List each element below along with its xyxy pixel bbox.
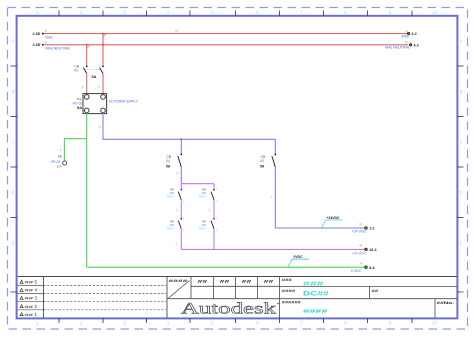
- PB left mid segment (orchid): [180, 200, 182, 219]
- svg-text:M: M: [175, 29, 178, 33]
- svg-text:MAs: MAs: [46, 35, 53, 39]
- wire number tags mid (yellow): [176, 208, 210, 212]
- contact -K4 left terminal numbers (cyan): [183, 216, 185, 232]
- svg-text:Autodesk: Autodesk: [181, 300, 276, 317]
- revision row 1 label: [20, 312, 38, 317]
- svg-text:##: ##: [242, 279, 253, 284]
- header kanji: approval: [264, 279, 275, 284]
- contact -K4 right terminal numbers (cyan): [216, 216, 218, 232]
- svg-text:7: 7: [300, 321, 303, 326]
- svg-text:##: ##: [264, 279, 275, 284]
- svg-text:4-2: 4-2: [412, 32, 417, 36]
- svg-text:5: 5: [211, 321, 214, 326]
- PB network top rail (orchid): [181, 183, 214, 185]
- junction node at branch x181: [180, 138, 182, 140]
- svg-text:M: M: [360, 262, 363, 266]
- breaker CB-04 labels: [165, 155, 172, 168]
- wire branch down x181 upper (slate purple): [180, 139, 182, 154]
- svg-text:1: 1: [183, 187, 185, 191]
- wire number tag below CB-04 (green): [176, 172, 178, 176]
- destination arrow D-4-2 rail L2: [385, 40, 419, 49]
- svg-text:E: E: [12, 241, 15, 246]
- 0VDC callout leader (cyan): [288, 259, 309, 267]
- left zone letters: [11, 39, 14, 297]
- breaker CB-05 drop (slate purple): [274, 139, 276, 154]
- top zone tick marks: [59, 11, 412, 17]
- +24VDC callout leader (cyan): [322, 220, 343, 228]
- svg-text:MAs: MAs: [402, 35, 409, 39]
- power supply PS-PE-02 box: [83, 94, 107, 114]
- date divider cell label (kanji): [370, 287, 379, 299]
- svg-text:2: 2: [98, 85, 100, 89]
- wire PS minus to 0VDC bus (green vertical): [86, 113, 88, 268]
- svg-text:MAs NEUTRAL: MAs NEUTRAL: [385, 45, 410, 49]
- svg-text:A: A: [460, 39, 463, 44]
- svg-text:1: 1: [82, 85, 84, 89]
- svg-text:##: ##: [198, 279, 209, 284]
- circuit breaker CB-03 pole 1: [83, 66, 87, 74]
- right zone letters: [459, 39, 462, 297]
- PE branch wire (green): [64, 139, 86, 161]
- svg-text:29-5: 29-5: [199, 195, 205, 199]
- scale cell diagonal: [169, 281, 190, 299]
- svg-text:(G): (G): [57, 164, 62, 168]
- svg-text:4: 4: [167, 10, 170, 15]
- svg-text:1: 1: [216, 216, 218, 220]
- svg-text:M: M: [45, 29, 48, 33]
- svg-text:2: 2: [80, 10, 83, 15]
- breaker CB-05 contact: [272, 154, 276, 168]
- svg-text:##: ##: [25, 288, 35, 293]
- scale cell label (kana): [169, 279, 190, 283]
- left zone tick marks: [11, 66, 18, 292]
- svg-text:8: 8: [344, 10, 347, 15]
- svg-text:M: M: [405, 29, 408, 33]
- top zone numbers: [36, 10, 437, 15]
- contact -K4 right: [211, 218, 215, 229]
- source arrow 2-6D rail L1: [33, 29, 48, 36]
- PE terminal labels: [50, 148, 62, 168]
- svg-text:MAs NEUTRAL: MAs NEUTRAL: [46, 46, 71, 50]
- label drawing title (kanji): [282, 289, 296, 293]
- wire number tag rail L1 (yellow): [175, 29, 178, 33]
- svg-text:##: ##: [25, 280, 35, 285]
- svg-text:M: M: [405, 40, 408, 44]
- svg-text:B: B: [12, 89, 15, 94]
- contact -K3 left: [178, 189, 182, 200]
- wire CB-05 down and +24VDC feeder (slate purple): [275, 167, 364, 228]
- svg-text:2: 2: [216, 228, 218, 232]
- wire number tag below CB-05 (green): [271, 196, 273, 200]
- svg-text:2: 2: [35, 304, 38, 309]
- wire drop from L2 (red): [86, 44, 104, 66]
- svg-text:29-5: 29-5: [167, 195, 173, 199]
- svg-text:PE: PE: [58, 155, 62, 159]
- svg-text:-04: -04: [165, 159, 170, 163]
- svg-text:-05: -05: [259, 159, 264, 163]
- bottom zone tick marks: [59, 318, 412, 323]
- wire drop from L1 (red): [102, 33, 106, 66]
- svg-text:10: 10: [432, 10, 437, 15]
- svg-text:F: F: [12, 291, 15, 296]
- wire breaker to PS terminal 2 (red): [102, 73, 104, 94]
- revision row 3 label: [20, 296, 38, 301]
- svg-text:3: 3: [35, 296, 38, 301]
- svg-text:2-6D: 2-6D: [33, 32, 41, 36]
- Autodesk logotype: [181, 300, 279, 317]
- svg-text:##: ##: [372, 289, 379, 293]
- PB right mid segment (orchid): [213, 200, 215, 219]
- wire number tags above PS (green): [82, 85, 101, 89]
- contact -K3 right: [211, 189, 215, 200]
- svg-text:16-4: 16-4: [369, 248, 376, 252]
- svg-text:D: D: [459, 190, 462, 195]
- svg-text:5: 5: [35, 280, 38, 285]
- svg-text:4-2: 4-2: [414, 43, 419, 47]
- contact -K4 right labels: [199, 219, 206, 230]
- revision table dashed row lines: [18, 286, 167, 310]
- svg-text:DC##: DC##: [303, 291, 330, 297]
- svg-text:+24 VDC: +24 VDC: [352, 230, 367, 234]
- svg-text:B: B: [460, 89, 463, 94]
- svg-text:2: 2: [176, 242, 178, 246]
- PE earth terminal circle: [63, 161, 67, 165]
- svg-text:+24 VDC: +24 VDC: [352, 251, 367, 255]
- bottom zone numbers: [36, 321, 437, 326]
- svg-text:4: 4: [167, 321, 170, 326]
- svg-text:2: 2: [176, 172, 178, 176]
- title block column lines: [191, 277, 280, 319]
- svg-text:2: 2: [183, 228, 185, 232]
- label deliver-to (kanji): [282, 278, 292, 282]
- revision table frame: [18, 277, 168, 319]
- svg-text:5: 5: [211, 10, 214, 15]
- svg-text:A: A: [12, 39, 15, 44]
- svg-text:9: 9: [389, 321, 392, 326]
- wire number G tag (green): [98, 125, 101, 129]
- svg-text:1: 1: [35, 312, 38, 317]
- svg-text:0VDC: 0VDC: [294, 255, 304, 259]
- revision row 4 label: [20, 288, 38, 293]
- svg-text:C: C: [459, 140, 462, 145]
- svg-text:8-4: 8-4: [369, 266, 374, 270]
- svg-text:2: 2: [80, 321, 83, 326]
- customer name (cyan kanji): [303, 282, 325, 288]
- svg-text:+24VDC: +24VDC: [327, 216, 340, 220]
- svg-text:F: F: [460, 291, 463, 296]
- svg-text:E: E: [460, 241, 463, 246]
- order number (cyan kanji): [303, 309, 329, 315]
- +24VDC callout text: [327, 216, 340, 220]
- svg-text:####: ####: [303, 309, 329, 315]
- PB left lower segment (orchid): [180, 229, 182, 249]
- breaker CB-03 labels: [73, 65, 97, 79]
- svg-text:3: 3: [123, 321, 126, 326]
- svg-text:M: M: [360, 222, 363, 226]
- svg-text:5A: 5A: [92, 75, 97, 79]
- svg-text:####: ####: [282, 289, 296, 293]
- source arrow 2-6D rail L2: [33, 40, 48, 47]
- svg-text:##: ##: [220, 279, 231, 284]
- net label MAs NEUTRAL left: [46, 46, 71, 50]
- PB right lower segment (orchid): [213, 229, 215, 249]
- 0VDC bus (green): [87, 266, 365, 268]
- svg-text:NA: NA: [77, 106, 82, 110]
- wire number tag bottom left (green): [176, 242, 178, 246]
- page no cell: [435, 299, 454, 318]
- right zone tick marks: [457, 66, 464, 292]
- PS labels left: [72, 98, 82, 110]
- svg-text:29-5: 29-5: [199, 227, 205, 231]
- svg-text:1: 1: [36, 321, 39, 326]
- svg-text:8: 8: [344, 321, 347, 326]
- svg-text:4: 4: [35, 288, 38, 293]
- wire L2 neutral rail (red): [45, 44, 408, 46]
- contact -K4 left: [178, 218, 182, 229]
- svg-text:7: 7: [271, 196, 273, 200]
- wire CB-04 to PB network (slate purple): [180, 167, 182, 184]
- svg-text:1: 1: [60, 148, 62, 152]
- svg-text:2: 2: [216, 199, 218, 203]
- destination arrow D-8-4 0VDC line: [351, 262, 375, 273]
- svg-text:5A: 5A: [166, 165, 171, 169]
- svg-text:DC POWER SUPPLY: DC POWER SUPPLY: [109, 99, 138, 103]
- PS terminal circles: [84, 95, 105, 113]
- revision row 2 label: [20, 304, 38, 309]
- svg-text:D: D: [11, 190, 14, 195]
- breaker CB-04 contact: [178, 154, 182, 168]
- breaker CB-05 labels: [259, 155, 266, 168]
- svg-text:##No.: ##No.: [437, 301, 455, 305]
- revision row 5 label: [20, 280, 38, 285]
- destination arrow D-1-2 +24VDC line: [352, 222, 375, 233]
- wire PS plus output (slate purple): [103, 113, 275, 140]
- title block outline: [167, 277, 457, 319]
- label order number (kanji): [282, 301, 301, 305]
- svg-text:3: 3: [176, 208, 178, 212]
- +24VDC return bus (orchid): [181, 248, 364, 250]
- svg-text:##: ##: [25, 312, 35, 317]
- svg-text:C: C: [11, 140, 14, 145]
- header kanji: check: [242, 279, 253, 284]
- breaker CB-03 pole link (dashed): [85, 69, 101, 71]
- circuit breaker CB-03 pole 2: [100, 66, 104, 74]
- svg-text:##: ##: [25, 304, 35, 309]
- svg-text:10: 10: [432, 321, 437, 326]
- PB left branch upper segment (orchid): [180, 184, 182, 190]
- svg-text:-PE-02: -PE-02: [72, 101, 82, 105]
- svg-text:1: 1: [183, 216, 185, 220]
- svg-text:7: 7: [300, 10, 303, 15]
- svg-text:-03: -03: [73, 68, 78, 72]
- contact -K4 left labels: [167, 219, 174, 230]
- contact -K3 left labels: [167, 187, 174, 198]
- PB right branch upper segment (orchid): [213, 184, 215, 190]
- svg-text:M: M: [45, 40, 48, 44]
- title block row lines: [167, 286, 457, 298]
- wire L1 hot rail (red): [45, 33, 408, 35]
- svg-text:###: ###: [282, 278, 292, 282]
- svg-text:M: M: [360, 243, 363, 247]
- svg-text:######: ######: [282, 301, 301, 305]
- contact -K3 right terminal numbers (cyan): [216, 187, 218, 203]
- svg-text:3: 3: [123, 10, 126, 15]
- destination arrow D-16-4 return line: [352, 243, 377, 255]
- svg-text:29-5: 29-5: [167, 227, 173, 231]
- contact -K3 left terminal numbers (cyan): [183, 187, 185, 203]
- svg-text:##: ##: [25, 296, 35, 301]
- svg-text:2: 2: [183, 199, 185, 203]
- header kanji: drafting: [220, 279, 231, 284]
- header kanji: design: [198, 279, 209, 284]
- svg-text:1-2: 1-2: [369, 227, 374, 231]
- svg-text:3: 3: [208, 208, 210, 212]
- svg-text:0 VDC: 0 VDC: [351, 269, 362, 273]
- svg-text:-PE-03: -PE-03: [50, 160, 60, 164]
- svg-text:6: 6: [256, 10, 259, 15]
- svg-text:6: 6: [256, 321, 259, 326]
- svg-text:1: 1: [36, 10, 39, 15]
- svg-text:G: G: [98, 125, 101, 129]
- svg-text:###: ###: [303, 282, 325, 288]
- drawing title DC power (cyan): [303, 291, 330, 297]
- svg-text:####: ####: [169, 279, 190, 283]
- 0VDC callout text: [294, 255, 304, 259]
- wire breaker to PS terminal 1 (red): [86, 73, 88, 94]
- svg-text:2-6D: 2-6D: [33, 43, 41, 47]
- svg-text:5A: 5A: [260, 165, 265, 169]
- contact -K3 right labels: [199, 187, 206, 198]
- PS label DC POWER SUPPLY: [109, 99, 138, 103]
- net label MAs left: [46, 35, 53, 39]
- svg-text:1: 1: [216, 187, 218, 191]
- destination arrow D-4-2 rail L1: [402, 29, 417, 38]
- svg-text:9: 9: [389, 10, 392, 15]
